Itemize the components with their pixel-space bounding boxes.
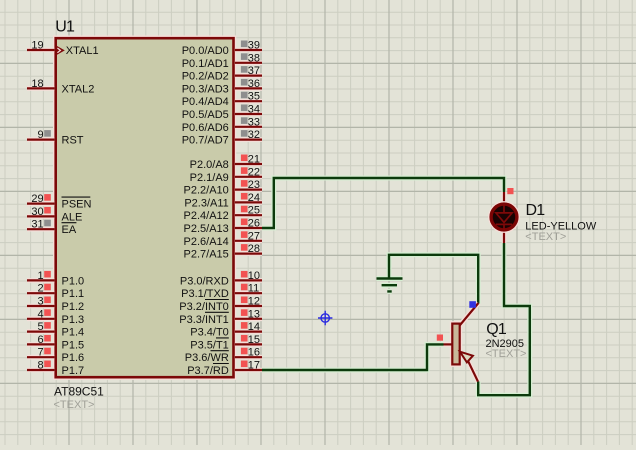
svg-text:25: 25 bbox=[248, 205, 260, 217]
svg-text:3: 3 bbox=[37, 296, 43, 308]
svg-text:P1.2: P1.2 bbox=[62, 301, 85, 313]
svg-text:P0.6/AD6: P0.6/AD6 bbox=[182, 122, 229, 134]
svg-text:P0.3/AD3: P0.3/AD3 bbox=[182, 83, 229, 95]
svg-text:D1: D1 bbox=[526, 202, 546, 219]
svg-text:P0.0/AD0: P0.0/AD0 bbox=[182, 45, 229, 57]
svg-text:P1.4: P1.4 bbox=[62, 327, 85, 339]
svg-text:30: 30 bbox=[31, 206, 43, 218]
svg-text:12: 12 bbox=[248, 296, 260, 308]
svg-text:XTAL1: XTAL1 bbox=[66, 45, 99, 57]
svg-text:38: 38 bbox=[248, 52, 260, 64]
svg-text:P0.4/AD4: P0.4/AD4 bbox=[182, 96, 229, 108]
svg-text:P0.5/AD5: P0.5/AD5 bbox=[182, 109, 229, 121]
svg-text:P1.3: P1.3 bbox=[62, 314, 85, 326]
svg-text:Q1: Q1 bbox=[486, 321, 507, 338]
svg-text:P3.6/WR: P3.6/WR bbox=[185, 352, 229, 364]
svg-text:34: 34 bbox=[248, 104, 260, 116]
svg-text:10: 10 bbox=[248, 270, 260, 282]
svg-text:P1.7: P1.7 bbox=[62, 365, 85, 377]
svg-text:XTAL2: XTAL2 bbox=[62, 83, 95, 95]
svg-text:P2.5/A13: P2.5/A13 bbox=[184, 223, 229, 235]
svg-text:22: 22 bbox=[248, 166, 260, 178]
svg-text:P3.7/RD: P3.7/RD bbox=[187, 365, 229, 377]
svg-text:8: 8 bbox=[37, 360, 43, 372]
svg-text:EA: EA bbox=[62, 224, 77, 236]
svg-text:7: 7 bbox=[37, 347, 43, 359]
svg-text:P1.0: P1.0 bbox=[62, 275, 85, 287]
svg-text:PSEN: PSEN bbox=[62, 199, 92, 211]
svg-text:P3.5/T1: P3.5/T1 bbox=[190, 339, 229, 351]
svg-text:P2.0/A8: P2.0/A8 bbox=[190, 159, 229, 171]
svg-text:18: 18 bbox=[31, 78, 43, 90]
svg-text:P2.7/A15: P2.7/A15 bbox=[184, 249, 229, 261]
svg-text:ALE: ALE bbox=[62, 211, 83, 223]
svg-text:36: 36 bbox=[248, 78, 260, 90]
svg-text:19: 19 bbox=[31, 40, 43, 52]
svg-text:17: 17 bbox=[248, 360, 260, 372]
svg-text:AT89C51: AT89C51 bbox=[54, 385, 104, 399]
svg-text:26: 26 bbox=[248, 218, 260, 230]
svg-text:32: 32 bbox=[248, 129, 260, 141]
svg-text:28: 28 bbox=[248, 243, 260, 255]
svg-text:P3.3/INT1: P3.3/INT1 bbox=[179, 314, 229, 326]
svg-text:<TEXT>: <TEXT> bbox=[525, 231, 566, 243]
svg-text:P3.1/TXD: P3.1/TXD bbox=[181, 288, 229, 300]
svg-text:RST: RST bbox=[62, 135, 84, 147]
svg-text:1: 1 bbox=[37, 270, 43, 282]
svg-text:33: 33 bbox=[248, 116, 260, 128]
svg-text:P0.7/AD7: P0.7/AD7 bbox=[182, 135, 229, 147]
svg-text:P0.2/AD2: P0.2/AD2 bbox=[182, 71, 229, 83]
svg-text:31: 31 bbox=[31, 219, 43, 231]
svg-text:P2.6/A14: P2.6/A14 bbox=[184, 236, 229, 248]
svg-text:14: 14 bbox=[248, 321, 260, 333]
svg-text:27: 27 bbox=[248, 230, 260, 242]
svg-text:<TEXT>: <TEXT> bbox=[54, 399, 95, 411]
svg-text:5: 5 bbox=[37, 321, 43, 333]
svg-text:P3.0/RXD: P3.0/RXD bbox=[180, 275, 229, 287]
svg-text:2: 2 bbox=[37, 283, 43, 295]
svg-text:P3.4/T0: P3.4/T0 bbox=[190, 327, 229, 339]
svg-text:P2.3/A11: P2.3/A11 bbox=[184, 197, 228, 209]
svg-text:P1.6: P1.6 bbox=[62, 352, 85, 364]
svg-text:P1.1: P1.1 bbox=[62, 288, 85, 300]
svg-text:9: 9 bbox=[37, 129, 43, 141]
svg-text:P2.4/A12: P2.4/A12 bbox=[184, 210, 229, 222]
svg-text:11: 11 bbox=[248, 283, 259, 295]
svg-text:29: 29 bbox=[31, 193, 43, 205]
svg-text:4: 4 bbox=[37, 308, 43, 320]
svg-text:21: 21 bbox=[248, 154, 260, 166]
svg-text:P2.2/A10: P2.2/A10 bbox=[184, 185, 229, 197]
svg-text:U1: U1 bbox=[55, 18, 75, 35]
svg-text:15: 15 bbox=[248, 334, 260, 346]
svg-text:35: 35 bbox=[248, 91, 260, 103]
svg-text:P0.1/AD1: P0.1/AD1 bbox=[182, 58, 229, 70]
svg-text:P2.1/A9: P2.1/A9 bbox=[190, 172, 229, 184]
svg-text:39: 39 bbox=[248, 40, 260, 52]
svg-text:37: 37 bbox=[248, 65, 260, 77]
svg-text:23: 23 bbox=[248, 179, 260, 191]
svg-text:<TEXT>: <TEXT> bbox=[486, 348, 527, 360]
svg-text:16: 16 bbox=[248, 347, 260, 359]
svg-text:6: 6 bbox=[37, 334, 43, 346]
svg-text:P3.2/INT0: P3.2/INT0 bbox=[179, 301, 229, 313]
svg-text:13: 13 bbox=[248, 308, 260, 320]
svg-text:24: 24 bbox=[248, 192, 260, 204]
svg-text:P1.5: P1.5 bbox=[62, 339, 85, 351]
